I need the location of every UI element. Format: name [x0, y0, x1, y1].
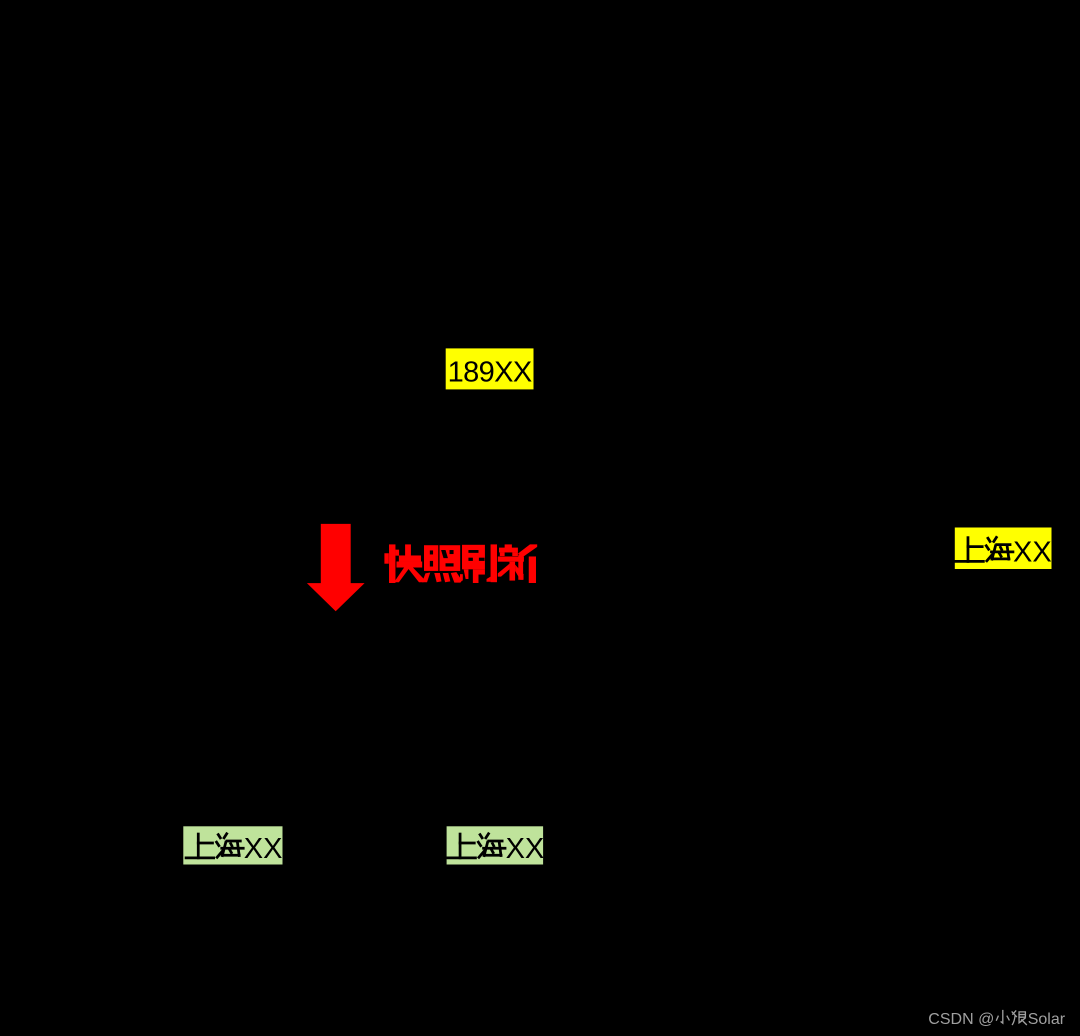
red text 快照刷新	[384, 544, 537, 583]
glyph 快	[384, 544, 424, 583]
green highlight box 上海XX (bottom left)	[183, 826, 282, 864]
yellow highlight box 189XX	[446, 348, 534, 389]
glyph 小	[996, 1011, 1009, 1024]
label text 上海 (bottom left)	[186, 834, 243, 858]
svg-text:Solar: Solar	[1028, 1011, 1066, 1028]
green highlight box 上海XX (bottom middle)	[447, 826, 543, 864]
glyph 新	[498, 544, 537, 583]
label text 上海 (right)	[956, 537, 1013, 561]
glyph 刷	[460, 544, 497, 583]
svg-text:189XX: 189XX	[448, 357, 532, 389]
svg-text:CSDN @: CSDN @	[928, 1011, 994, 1028]
red arrow (snapshot refresh)	[307, 524, 365, 611]
glyph 照	[422, 545, 462, 582]
svg-text:XX: XX	[506, 833, 545, 865]
svg-text:XX: XX	[1013, 537, 1052, 569]
glyph 狼	[1012, 1011, 1026, 1025]
yellow highlight box 上海XX (right)	[955, 528, 1052, 570]
label text 上海 (bottom middle)	[448, 834, 505, 858]
svg-text:XX: XX	[244, 833, 283, 865]
